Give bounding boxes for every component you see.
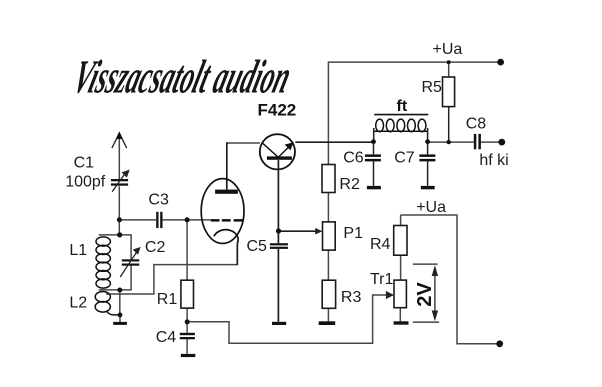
svg-text:R1: R1 xyxy=(157,291,178,308)
svg-text:R2: R2 xyxy=(339,176,360,193)
svg-text:+Ua: +Ua xyxy=(433,41,463,58)
svg-text:+Ua: +Ua xyxy=(416,199,446,216)
svg-text:C5: C5 xyxy=(247,238,268,255)
svg-text:Visszacsatolt audion: Visszacsatolt audion xyxy=(68,50,297,103)
svg-text:hf ki: hf ki xyxy=(479,152,508,169)
svg-text:C2: C2 xyxy=(145,239,166,256)
svg-text:C6: C6 xyxy=(343,150,364,167)
svg-text:C8: C8 xyxy=(466,116,487,133)
svg-text:2V: 2V xyxy=(414,282,436,307)
svg-text:P1: P1 xyxy=(343,225,363,242)
svg-text:100pf: 100pf xyxy=(65,173,106,190)
svg-text:C3: C3 xyxy=(148,192,169,209)
svg-text:Tr1: Tr1 xyxy=(370,271,394,288)
svg-text:C1: C1 xyxy=(74,155,95,172)
svg-text:C4: C4 xyxy=(156,329,177,346)
svg-text:C7: C7 xyxy=(394,150,415,167)
svg-text:L2: L2 xyxy=(69,294,87,311)
svg-text:R5: R5 xyxy=(422,79,443,96)
svg-text:ft: ft xyxy=(397,98,408,115)
svg-text:L1: L1 xyxy=(69,242,87,259)
svg-text:R4: R4 xyxy=(370,236,391,253)
svg-text:R3: R3 xyxy=(341,289,362,306)
svg-text:F422: F422 xyxy=(258,101,297,120)
